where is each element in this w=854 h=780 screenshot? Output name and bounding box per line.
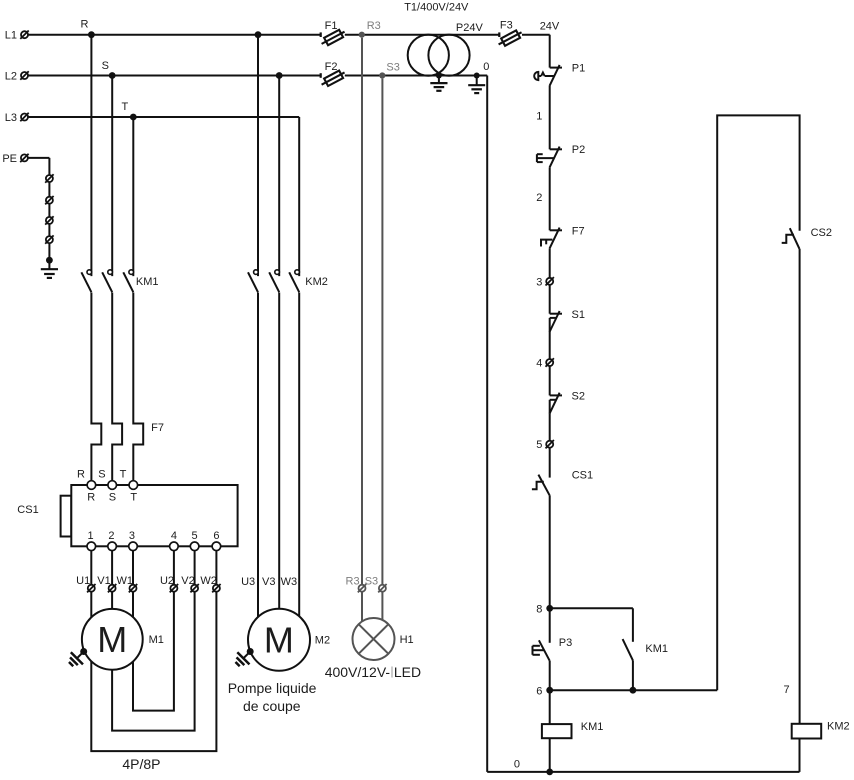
svg-text:PE: PE — [2, 153, 17, 165]
svg-text:6: 6 — [536, 685, 542, 697]
svg-text:KM1: KM1 — [581, 721, 604, 733]
svg-text:W1: W1 — [117, 575, 134, 587]
svg-text:H1: H1 — [400, 634, 414, 646]
svg-text:7: 7 — [784, 684, 790, 696]
svg-text:KM2: KM2 — [827, 721, 850, 733]
svg-text:T: T — [122, 101, 129, 113]
svg-text:F2: F2 — [325, 61, 338, 73]
svg-text:W3: W3 — [281, 576, 298, 588]
svg-text:M: M — [264, 619, 294, 660]
svg-text:F1: F1 — [325, 20, 338, 32]
svg-text:Pompe liquide: Pompe liquide — [228, 680, 317, 696]
svg-text:F7: F7 — [151, 422, 164, 434]
svg-text:LED: LED — [394, 664, 421, 680]
svg-text:4: 4 — [536, 358, 542, 370]
svg-text:R: R — [87, 491, 95, 503]
svg-text:6: 6 — [213, 530, 219, 542]
svg-text:2: 2 — [108, 530, 114, 542]
svg-text:R: R — [81, 19, 89, 31]
svg-text:T: T — [130, 491, 137, 503]
svg-text:V2: V2 — [181, 575, 194, 587]
svg-text:5: 5 — [536, 439, 542, 451]
svg-text:S3: S3 — [365, 576, 378, 588]
svg-text:S: S — [98, 469, 105, 481]
svg-text:4P/8P: 4P/8P — [122, 756, 160, 772]
svg-text:de coupe: de coupe — [243, 698, 301, 714]
svg-text:P24V: P24V — [456, 22, 484, 34]
svg-text:U1: U1 — [76, 575, 90, 587]
svg-text:P1: P1 — [572, 62, 585, 74]
svg-text:R: R — [77, 469, 85, 481]
svg-text:V3: V3 — [262, 576, 275, 588]
svg-text:M1: M1 — [149, 634, 164, 646]
svg-text:L3: L3 — [5, 112, 17, 124]
svg-text:S3: S3 — [386, 61, 399, 73]
svg-text:400V/12V-: 400V/12V- — [325, 664, 391, 680]
svg-text:0: 0 — [514, 758, 520, 770]
svg-text:L1: L1 — [5, 30, 17, 42]
svg-text:U3: U3 — [241, 576, 255, 588]
svg-text:V1: V1 — [97, 575, 110, 587]
svg-text:CS1: CS1 — [17, 504, 38, 516]
svg-text:24V: 24V — [540, 20, 560, 32]
svg-text:CS2: CS2 — [811, 227, 832, 239]
svg-text:M: M — [97, 619, 127, 660]
svg-text:R3: R3 — [367, 20, 381, 32]
svg-text:U2: U2 — [160, 575, 174, 587]
svg-text:0: 0 — [483, 61, 489, 73]
svg-text:M2: M2 — [315, 635, 330, 647]
svg-text:F3: F3 — [500, 20, 513, 32]
svg-text:KM1: KM1 — [136, 276, 159, 288]
svg-text:3: 3 — [536, 276, 542, 288]
svg-text:W2: W2 — [200, 575, 217, 587]
svg-text:F7: F7 — [572, 225, 585, 237]
svg-text:S2: S2 — [572, 391, 585, 403]
svg-text:5: 5 — [191, 530, 197, 542]
svg-text:S: S — [109, 491, 116, 503]
svg-text:T: T — [120, 469, 127, 481]
svg-text:KM2: KM2 — [305, 276, 328, 288]
svg-text:3: 3 — [129, 530, 135, 542]
svg-text:1: 1 — [88, 530, 94, 542]
svg-text:CS1: CS1 — [572, 470, 593, 482]
svg-text:S: S — [102, 60, 109, 72]
svg-text:L2: L2 — [5, 71, 17, 83]
svg-text:KM1: KM1 — [645, 643, 668, 655]
svg-text:T1/400V/24V: T1/400V/24V — [404, 1, 469, 13]
svg-text:P3: P3 — [559, 637, 572, 649]
svg-text:S1: S1 — [572, 309, 585, 321]
svg-text:R3: R3 — [346, 576, 360, 588]
svg-text:P2: P2 — [572, 144, 585, 156]
svg-text:2: 2 — [536, 192, 542, 204]
svg-text:1: 1 — [536, 110, 542, 122]
svg-text:8: 8 — [536, 603, 542, 615]
svg-text:4: 4 — [171, 530, 177, 542]
